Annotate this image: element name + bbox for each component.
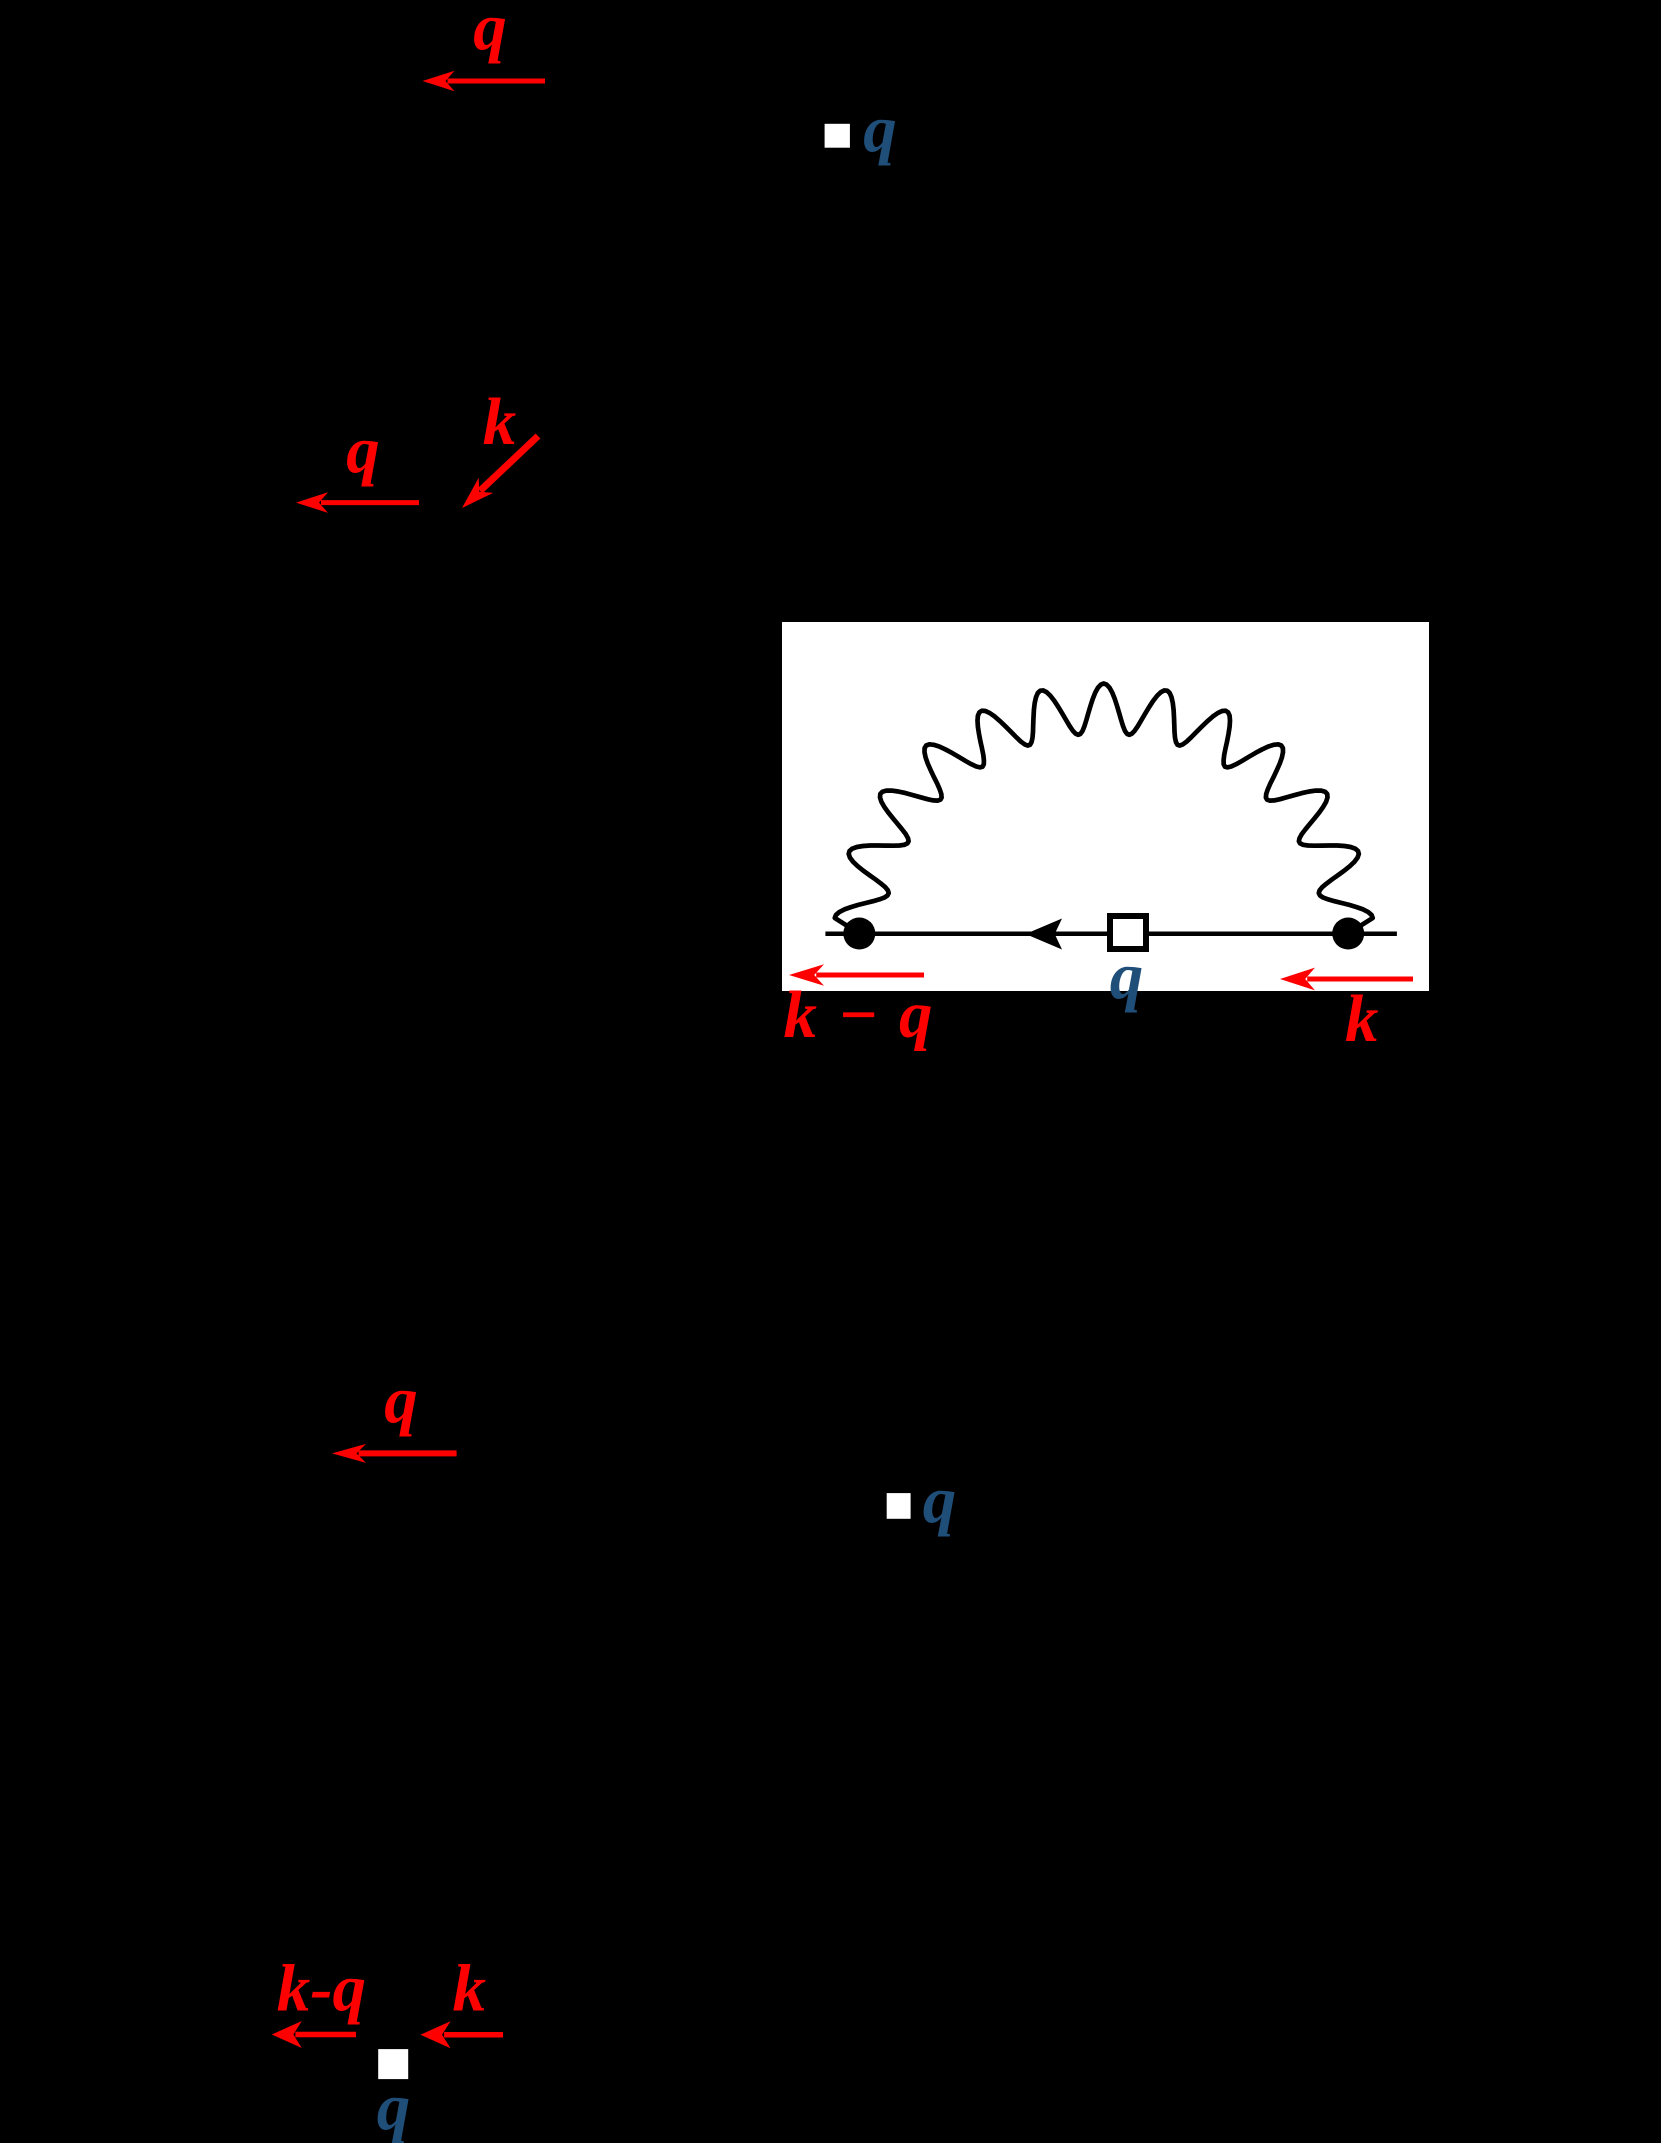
svg-text:q: q: [923, 1463, 957, 1537]
svg-text:k: k: [1345, 982, 1379, 1056]
node: white background panel (self-energy diagram): [782, 622, 1429, 991]
svg-text:k: k: [483, 385, 517, 459]
svg-text:q: q: [346, 414, 380, 488]
wire: photon wavy line arc: [835, 684, 1373, 934]
node: right interaction vertex dot: [1332, 918, 1364, 950]
wire: fermion straight line: [825, 932, 1397, 937]
wire: red arrow q pointing left (third diagram): [359, 1450, 457, 1456]
wire: red arrow k pointing left (bottom-right of panel): [1307, 977, 1413, 982]
svg-text:q: q: [377, 2071, 411, 2143]
svg-text:q: q: [1110, 940, 1144, 1014]
svg-text:q: q: [384, 1364, 418, 1438]
wire: red arrow k pointing left (bottom diagram): [444, 2032, 503, 2038]
svg-text:k − q: k − q: [783, 978, 934, 1052]
svg-text:q: q: [863, 93, 897, 167]
node: white square vertex (third diagram): [887, 1493, 911, 1519]
node: white square vertex (top diagram): [825, 124, 850, 148]
node: left interaction vertex dot: [843, 918, 875, 950]
node: white square vertex (bottom diagram): [378, 2049, 408, 2079]
svg-text:q: q: [473, 0, 507, 65]
svg-text:k: k: [453, 1952, 487, 2026]
wire: fermion arrowhead pointing left: [1026, 919, 1063, 950]
wire: red arrow q pointing left (top diagram): [448, 79, 546, 84]
wire: red arrow k-q pointing left (bottom diagram): [295, 2032, 356, 2038]
svg-text:k-q: k-q: [277, 1952, 366, 2026]
wire: red diagonal arrow k pointing down-left (second diagram): [480, 436, 538, 491]
wire: red arrow q pointing left (second diagram): [321, 500, 419, 505]
node: open square vertex (self-energy insertion): [1110, 916, 1146, 949]
wire: red arrow k-q pointing left (bottom-left of panel): [816, 973, 924, 978]
